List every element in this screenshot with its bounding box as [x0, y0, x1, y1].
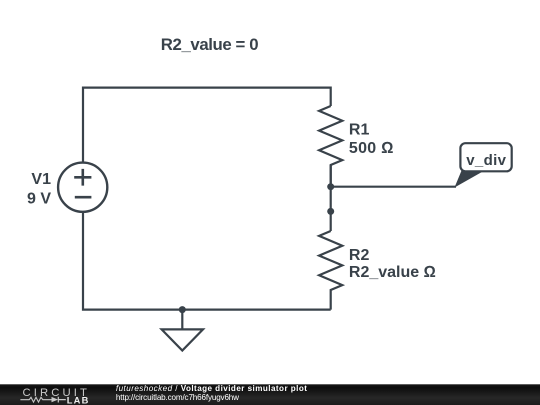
- logo diode: [52, 397, 59, 402]
- svg-text:500 Ω: 500 Ω: [349, 140, 394, 157]
- svg-text:R2_value = 0: R2_value = 0: [161, 35, 258, 54]
- svg-text:V1: V1: [31, 171, 51, 188]
- node flag v_div pointer: [455, 171, 484, 188]
- svg-text:http://circuitlab.com/c7h66fyu: http://circuitlab.com/c7h66fyugv6hw: [116, 393, 239, 402]
- ground dot: [179, 306, 186, 313]
- V1 minus sign: [75, 196, 92, 199]
- voltage source V1 circle: [58, 163, 107, 212]
- V1 plus sign: [74, 169, 91, 186]
- wire bottom (V1 bottom to R2 bottom): [83, 211, 331, 310]
- junction node dot lower: [327, 208, 334, 215]
- svg-text:futureshocked / Voltage divide: futureshocked / Voltage divider simulato…: [116, 384, 308, 393]
- wire middle vertical (R1 bottom to R2 top): [330, 165, 332, 231]
- junction node dot upper: [327, 183, 334, 190]
- resistor R1 zigzag: [319, 106, 342, 187]
- svg-text:v_div: v_div: [466, 152, 506, 169]
- svg-text:R2_value Ω: R2_value Ω: [349, 264, 436, 281]
- logo wire and resistor squiggle: [20, 397, 52, 402]
- svg-text:R1: R1: [349, 121, 370, 138]
- ground stem: [181, 310, 183, 330]
- svg-text:LAB: LAB: [67, 395, 90, 405]
- svg-text:R2: R2: [349, 247, 370, 264]
- footer bar: [0, 384, 540, 405]
- resistor R2 zigzag: [319, 231, 342, 310]
- svg-text:9 V: 9 V: [27, 190, 51, 207]
- wire top-left L (V1 top to R1 top): [83, 88, 331, 164]
- ground triangle: [162, 329, 203, 350]
- node flag v_div box: [460, 143, 511, 171]
- wire to flag: [331, 186, 456, 188]
